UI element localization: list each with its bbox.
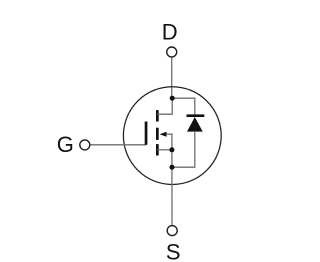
- terminal circle S: [167, 226, 177, 236]
- wire source trunk down to S terminal: [171, 150, 173, 225]
- diode cathode bar: [187, 114, 205, 117]
- wire top node to diode cathode: [172, 98, 195, 115]
- wire drain: D terminal to internal drain node: [171, 58, 173, 98]
- source contact bar: [156, 144, 159, 155]
- MOSFET envelope circle U1: [123, 87, 221, 185]
- wire diode anode to bottom node: [172, 131, 195, 167]
- wire gate: G terminal to gate electrode: [90, 144, 146, 146]
- terminal circle G: [80, 140, 90, 150]
- gate electrode bar: [145, 122, 148, 145]
- junction node diode anode: [170, 165, 175, 170]
- svg-text:G: G: [57, 132, 74, 157]
- wire source contact to trunk: [158, 149, 172, 151]
- body contact bar: [156, 128, 159, 140]
- terminal circle D: [167, 47, 177, 57]
- svg-text:D: D: [162, 20, 178, 45]
- junction node at drain: [170, 96, 175, 101]
- wire drain contact to top node: [158, 98, 173, 114]
- junction node source contact: [169, 147, 174, 152]
- drain contact bar: [156, 110, 159, 121]
- svg-text:S: S: [166, 240, 181, 262]
- body arrow (N-channel): [160, 132, 167, 137]
- diode anode triangle: [187, 117, 203, 132]
- wire body arrow to source trunk: [166, 134, 172, 150]
